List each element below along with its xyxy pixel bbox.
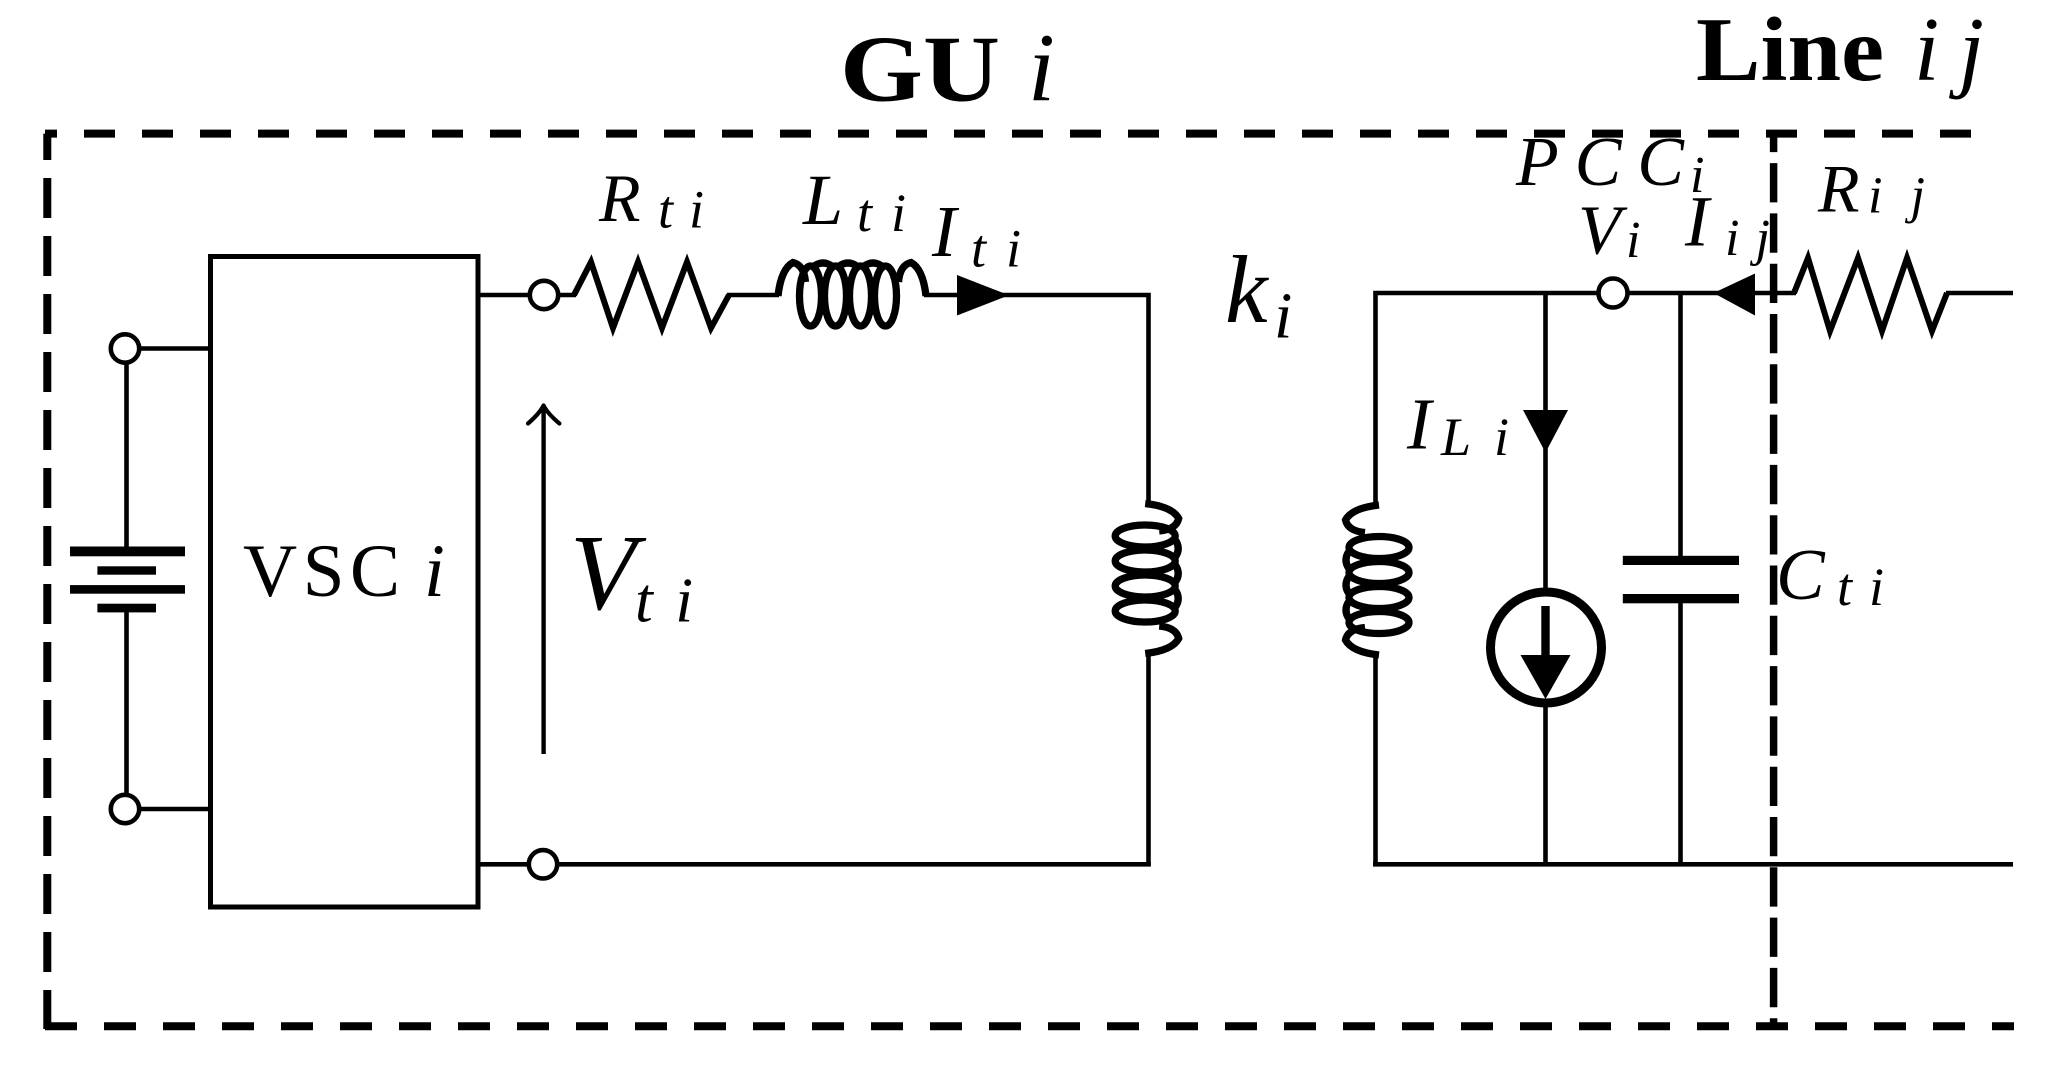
svg-text:i: i (1274, 280, 1292, 353)
svg-text:C: C (1776, 534, 1826, 615)
wire: VSC left top to battery node (125, 346, 212, 351)
wire: battery bottom plate to lower node (124, 610, 129, 809)
node: battery top terminal (111, 334, 139, 362)
current arrow I_ti (right) (957, 275, 1009, 316)
current arrow I_Li (down) (1523, 410, 1568, 453)
svg-text:L: L (802, 160, 843, 240)
(mask) white under R_ij zigzag (1796, 290, 1946, 297)
resistor R_ij zigzag (1794, 258, 1947, 331)
svg-text:i: i (424, 530, 445, 613)
svg-text:VSC: VSC (243, 530, 400, 613)
svg-text:I: I (1684, 181, 1712, 261)
svg-text:i: i (1626, 212, 1640, 269)
wire: right bottom rail (1373, 862, 2013, 867)
current source arrow head (1521, 655, 1571, 699)
dashed boundary: bottom border (45, 1022, 2014, 1030)
inductor L_ti (horizontal cute coil) (778, 263, 926, 327)
wire: primary coil bottom down to bottom rail (1146, 653, 1151, 866)
wire: capacitor branch lower (1678, 602, 1683, 864)
svg-text:GU: GU (840, 18, 1000, 122)
wire: lower battery node to VSC left (125, 807, 212, 812)
svg-text:R: R (598, 160, 641, 236)
svg-text:R: R (1817, 151, 1860, 227)
wire: bottom rail from VSC to transformer primary (476, 862, 1151, 867)
current arrow I_ij (left) (1714, 274, 1756, 316)
wire: resistor to inductor (727, 293, 779, 298)
wire: load branch vertical (1543, 293, 1548, 864)
wire: secondary coil top up and right to PCC node (1376, 293, 2014, 506)
node: VSC top output terminal (530, 281, 558, 309)
node: VSC bottom output terminal (529, 850, 557, 878)
svg-text:k: k (1225, 236, 1270, 343)
voltage arrow V_ti curved head (528, 406, 559, 424)
wire: inductor Lti to primary coil, corner down (924, 295, 1149, 504)
svg-text:I: I (1406, 384, 1435, 465)
wire: secondary coil bottom to bottom rail (1373, 653, 1378, 866)
transformer secondary coil (vertical, loops right) (1346, 505, 1410, 655)
svg-text:I: I (931, 191, 960, 272)
current source arrow stem (1541, 606, 1549, 660)
resistor R_ti zigzag (574, 262, 729, 328)
voltage arrow V_ti stem (541, 408, 545, 754)
wire: VSC top output to resistor (476, 293, 576, 298)
svg-text:i: i (1028, 15, 1055, 122)
transformer primary coil (vertical, loops left) (1115, 504, 1179, 654)
dashed separator between GU i and Line ij (1770, 134, 1778, 1026)
dashed boundary: top border of GU i box (45, 130, 1995, 138)
battery (DC source) plates (70, 547, 185, 557)
svg-text:PCC: PCC (1515, 124, 1685, 201)
node: PCC_i terminal (1599, 279, 1628, 308)
dashed boundary: left border (43, 134, 51, 1029)
VSC i converter box (211, 257, 479, 908)
current source circle (1491, 592, 1602, 703)
capacitor C_ti plates (1623, 556, 1739, 565)
svg-text:V: V (1578, 192, 1628, 269)
wire: capacitor branch upper (1678, 293, 1683, 557)
wire: battery node down to battery top plate (124, 349, 129, 550)
svg-text:Line: Line (1696, 0, 1884, 100)
node: battery bottom terminal (111, 795, 139, 823)
